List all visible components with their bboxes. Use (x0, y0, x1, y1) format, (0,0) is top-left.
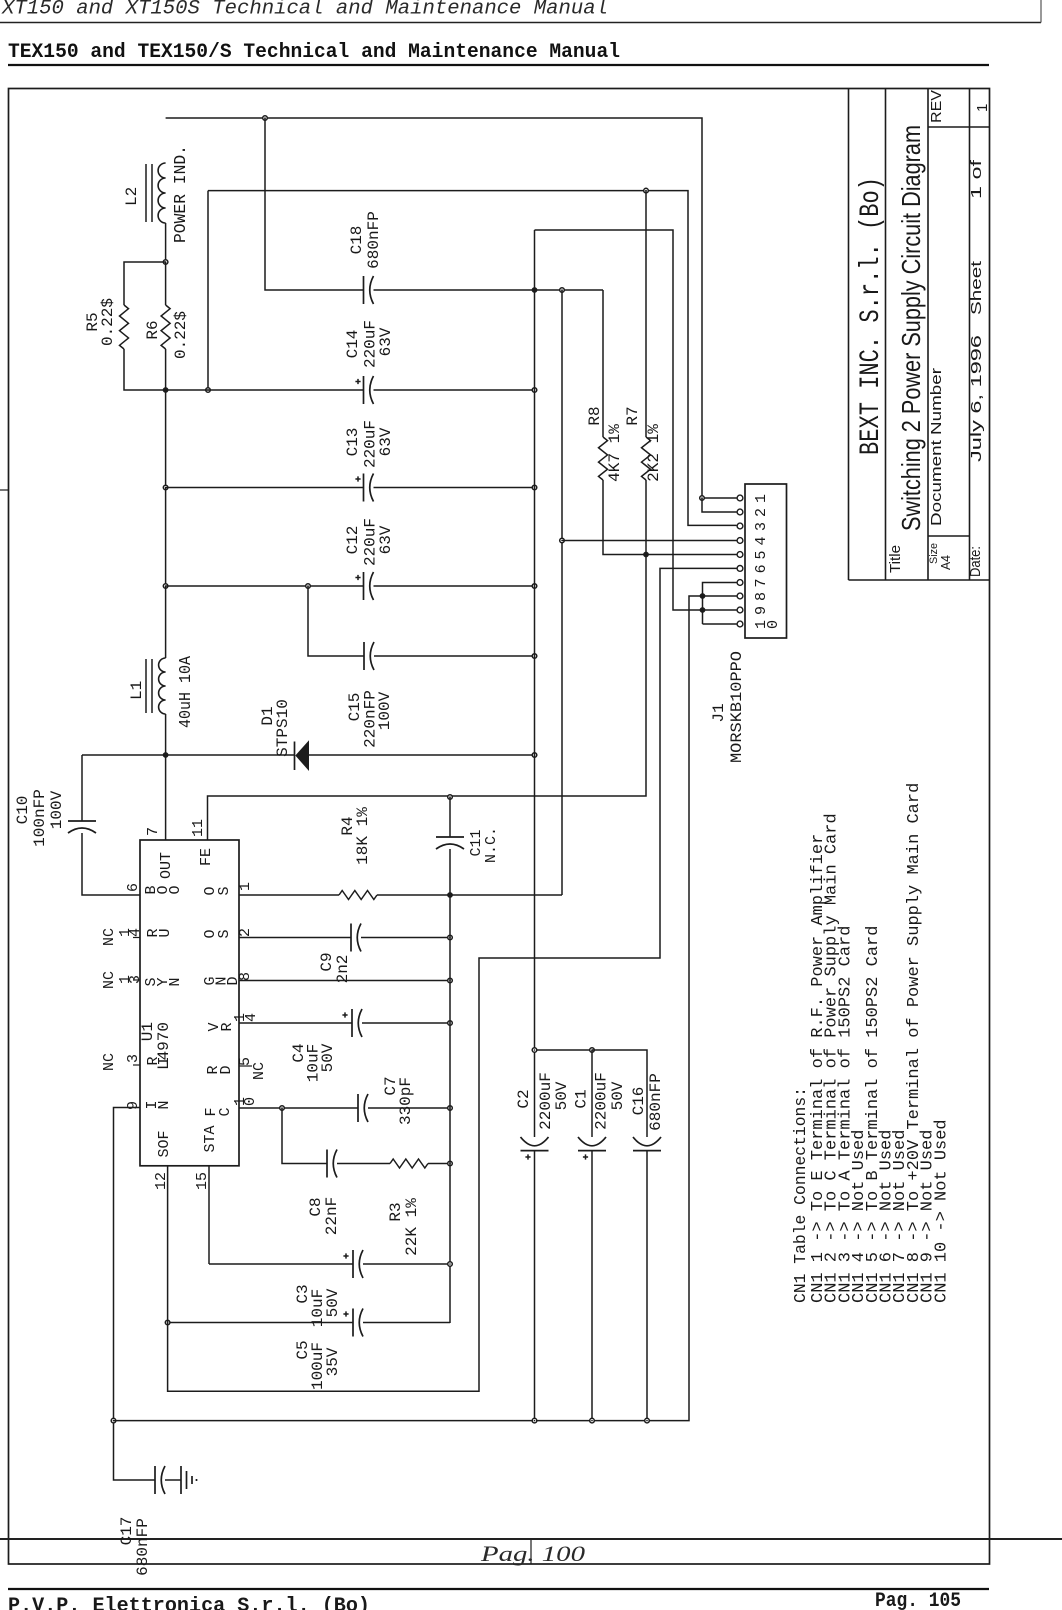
svg-text:8: 8 (753, 592, 770, 601)
wire C18 to R8 corner (374, 289, 604, 291)
right rail vertical lower (449, 849, 451, 1323)
junction J1 pin3 node (700, 593, 706, 599)
U1 pin 11 wire (208, 555, 647, 841)
svg-text:7: 7 (145, 827, 162, 836)
svg-text:L1: L1 (128, 681, 146, 700)
svg-text:A4: A4 (938, 555, 953, 570)
paper fold line bottom (0, 1538, 1062, 1540)
wire C16 feed (592, 1050, 647, 1137)
inductor L2 core bars (145, 164, 147, 222)
svg-text:OUT: OUT (158, 852, 175, 879)
svg-text:4: 4 (753, 536, 770, 545)
capacitor C16 (633, 1137, 661, 1146)
svg-text:C2: C2 (515, 1089, 533, 1108)
wire pin8 rail horizontal (208, 191, 737, 526)
capacitor C2 (521, 1137, 549, 1146)
wire C2/C1 top row (535, 1049, 593, 1051)
svg-text:680nFP: 680nFP (365, 211, 383, 269)
capacitor C4 (351, 1009, 353, 1037)
junction R5/R6 bottom (163, 387, 169, 393)
resistor R6 (165, 262, 167, 305)
svg-text:P.V.P. Elettronica S.r.l. (Bo): P.V.P. Elettronica S.r.l. (Bo) (8, 1595, 370, 1610)
connector J1 body (745, 484, 787, 638)
resistor R8 (599, 437, 608, 480)
svg-text:Sheet: Sheet (968, 260, 985, 315)
wire R7 vertical (645, 191, 647, 437)
junction J1 pin2 node (700, 607, 706, 613)
svg-text:SOF: SOF (156, 1130, 173, 1157)
main rail vertical (534, 230, 536, 1137)
wire C10 stub down (81, 755, 83, 821)
junction C12 row left (163, 584, 168, 589)
capacitor C12 (363, 572, 365, 600)
U1 pin 7 wire (165, 755, 167, 840)
svg-text:Document Number: Document Number (928, 368, 945, 526)
svg-text:1 of: 1 of (968, 159, 985, 199)
svg-text:NC: NC (101, 971, 118, 989)
svg-text:REV: REV (928, 90, 945, 123)
svg-text:Pag. 100: Pag. 100 (480, 1541, 585, 1566)
wire pin1 row with R4 (239, 894, 339, 896)
inductor L1 (159, 658, 166, 714)
header rule 2 (8, 64, 989, 66)
wire C13 row (166, 487, 364, 489)
svg-text:3: 3 (753, 522, 770, 531)
diode D1 (294, 742, 296, 771)
net wire top of main rail to J1 pins 1-2-3 branch (535, 230, 703, 610)
svg-text:2K2 1%: 2K2 1% (645, 424, 663, 482)
svg-text:C13: C13 (344, 428, 362, 457)
svg-text:C1: C1 (573, 1089, 591, 1108)
junction C3 wire / right rail (448, 1262, 453, 1267)
svg-text:C18: C18 (348, 226, 366, 255)
J1 pin circles (737, 495, 743, 501)
junction C16 / ground rail (645, 1418, 650, 1423)
svg-text:N.C.: N.C. (483, 827, 500, 863)
wire C8/R3 branch (282, 1108, 327, 1164)
junction C15 drop on C12 row (306, 584, 311, 589)
wire C2 bottom (534, 1151, 536, 1421)
svg-text:50V: 50V (319, 1043, 337, 1072)
svg-text:4: 4 (243, 1013, 260, 1022)
svg-text:XT150 and XT150S Technical and: XT150 and XT150S Technical and Maintenan… (1, 0, 608, 21)
svg-text:22nF: 22nF (323, 1197, 341, 1235)
junction pin8-rail corner on C14 wire (206, 388, 211, 393)
svg-text:O: O (167, 885, 184, 894)
svg-text:I: I (156, 1056, 173, 1065)
capacitor C7 (357, 1094, 359, 1122)
junction R7/R8/pin6/pin11 node (643, 552, 649, 558)
footer rule (8, 1588, 989, 1590)
junction C18 wire / main rail (532, 287, 538, 293)
svg-text:2n2: 2n2 (334, 955, 352, 984)
svg-text:100nFP: 100nFP (31, 789, 49, 847)
svg-text:35V: 35V (324, 1347, 342, 1376)
svg-text:2: 2 (753, 508, 770, 517)
title block frame (848, 89, 850, 581)
junction C13 row left (163, 485, 168, 490)
svg-text:Title: Title (887, 545, 904, 573)
capacitor C9 (350, 924, 352, 952)
svg-text:MORSKB10PPO: MORSKB10PPO (728, 651, 746, 763)
junction C15 wire / main rail (532, 654, 537, 659)
U1 pin 13 stub (133, 979, 140, 981)
svg-text:2200uF: 2200uF (593, 1072, 611, 1130)
svg-text:FE: FE (198, 848, 215, 866)
junction C13 wire / main rail (532, 485, 537, 490)
svg-text:Pag. 105: Pag. 105 (875, 1590, 961, 1610)
wire R8 top corner (602, 290, 604, 437)
junction main rail / C2C1 row (532, 1048, 537, 1053)
capacitor C3 (352, 1250, 354, 1278)
wire D1 to main rail (309, 754, 535, 756)
right rail vertical upper (449, 797, 451, 837)
svg-text:TEX150 and TEX150/S Technical: TEX150 and TEX150/S Technical and Mainte… (8, 41, 620, 64)
junction node top rail (263, 116, 268, 121)
wire pin9 to ground (114, 1108, 156, 1481)
junction R7 top (644, 188, 649, 193)
wire L2 to R5/R6 node (165, 223, 167, 262)
junction pin10 row / C8 branch (280, 1106, 285, 1111)
junction OUT node at pin7 (163, 752, 169, 758)
svg-text:U: U (157, 928, 174, 937)
svg-text:100V: 100V (376, 691, 394, 730)
svg-text:2: 2 (237, 928, 254, 937)
svg-text:50V: 50V (324, 1288, 342, 1317)
header rule 1 end tick (1040, 0, 1042, 23)
wire pin14 row with C4 (239, 1022, 352, 1024)
wire J1 pin3 (703, 595, 737, 597)
wire left rail continues (165, 488, 167, 587)
wire OUT row to D1 (82, 754, 295, 756)
junction R3 wire / right rail (448, 1161, 453, 1166)
svg-text:L2: L2 (123, 187, 141, 206)
wire J1 pin7 (562, 540, 737, 542)
junction OUT wire / main rail (532, 753, 537, 758)
svg-text:11: 11 (190, 819, 207, 837)
svg-text:S: S (216, 886, 233, 895)
svg-text:Date:: Date: (967, 546, 984, 577)
junction C4 wire / right rail (448, 1021, 453, 1026)
junction pin11 wire / right rail (448, 795, 453, 800)
svg-text:63V: 63V (377, 525, 395, 554)
svg-text:CN1 10 -> Not Used: CN1 10 -> Not Used (932, 1119, 951, 1303)
svg-text:9: 9 (125, 1101, 142, 1110)
svg-text:4K7 1%: 4K7 1% (606, 424, 624, 482)
U1 pin 5 stub (239, 1065, 252, 1067)
svg-text:C16: C16 (630, 1087, 648, 1116)
junction C5 wire / pin12 wire (165, 1320, 170, 1325)
svg-text:50V: 50V (609, 1081, 627, 1110)
wire into L1 (165, 586, 167, 658)
wire pin8 row (239, 980, 450, 982)
inductor L2 (158, 163, 166, 223)
wire J1 pin10 stub (702, 497, 737, 499)
wire C1 bottom (591, 1151, 593, 1421)
junction pin9 wire / ground rail (111, 1418, 116, 1423)
svg-text:6: 6 (753, 564, 770, 573)
junction C14 wire / main rail (532, 388, 537, 393)
svg-text:Switching 2 Power Supply Circu: Switching 2 Power Supply Circuit Diagram (896, 125, 926, 531)
wire pin2 row with C9 (239, 937, 351, 939)
resistor R4 (339, 891, 377, 900)
border tick left (0, 489, 9, 491)
svg-text:1: 1 (753, 494, 770, 503)
wire C18 branch vertical (265, 118, 364, 290)
capacitor C13 (363, 474, 365, 502)
junction C18 wire / feedback vertical (560, 288, 565, 293)
resistor R7 (642, 437, 651, 480)
svg-text:C14: C14 (344, 330, 362, 359)
wire R8 bottom to pin6 node (603, 480, 737, 555)
wire J1 pin4 (703, 583, 737, 625)
capacitor C1 (578, 1137, 606, 1146)
svg-text:63V: 63V (377, 427, 395, 456)
wire pin12 to ground loop to J1 pin5 (168, 568, 737, 1391)
svg-text:R8: R8 (586, 406, 604, 425)
U1 pin 14 stub (133, 937, 140, 939)
wire C15 stub (308, 586, 364, 656)
svg-text:R: R (219, 1022, 236, 1031)
capacitor C11 (436, 836, 464, 838)
wire C17 to ground symbol (165, 1479, 181, 1481)
svg-text:1: 1 (237, 882, 254, 891)
junction J1 pin10 (700, 496, 705, 501)
svg-text:D: D (218, 1065, 235, 1074)
junction pin8 row / right rail (448, 978, 453, 983)
wire C10 to pin6 (82, 833, 140, 895)
junction C9 wire / right rail (448, 935, 453, 940)
svg-text:4: 4 (127, 928, 144, 937)
svg-text:63V: 63V (377, 327, 395, 356)
svg-text:BEXT INC. S.r.l. (Bo): BEXT INC. S.r.l. (Bo) (856, 177, 887, 455)
junction C1 top (590, 1048, 595, 1053)
feedback vertical wire (561, 290, 563, 895)
svg-text:C: C (217, 1107, 234, 1116)
inductor L1 core bars (145, 659, 147, 713)
wire pin8 rail left corner down (207, 191, 209, 390)
wire C5 row (168, 1322, 353, 1324)
IC U1 body (140, 840, 239, 1166)
capacitor C5 (352, 1309, 354, 1337)
svg-text:50V: 50V (553, 1081, 571, 1110)
svg-text:22K 1%: 22K 1% (403, 1198, 421, 1256)
capacitor C15 (363, 642, 365, 670)
wire C3 row (209, 1263, 353, 1265)
wire J1 pin1 (703, 623, 737, 625)
svg-text:6: 6 (125, 883, 142, 892)
wire C12 row (166, 585, 364, 587)
svg-text:680nFP: 680nFP (134, 1518, 152, 1576)
capacitor C8 (326, 1150, 328, 1178)
wire pin10 row with C7 (239, 1107, 358, 1109)
svg-text:S: S (216, 929, 233, 938)
svg-text:July 6, 1996: July 6, 1996 (968, 335, 985, 462)
svg-text:100V: 100V (48, 790, 66, 829)
capacitor C17 (154, 1466, 156, 1494)
svg-text:9: 9 (753, 606, 770, 615)
svg-text:7: 7 (753, 578, 770, 587)
svg-text:POWER IND.: POWER IND. (172, 145, 191, 243)
svg-text:330pF: 330pF (397, 1077, 415, 1125)
svg-text:0.22$: 0.22$ (99, 298, 117, 346)
wire C1 drop (591, 1050, 593, 1137)
svg-text:18K 1%: 18K 1% (354, 807, 372, 865)
resistor R5 (120, 305, 129, 349)
svg-text:R7: R7 (624, 406, 642, 425)
junction R4 wire / right rail (447, 892, 453, 898)
wire L1 to OUT node (165, 714, 167, 755)
wire J1 pin2 (703, 609, 737, 611)
wire pin15 to C3 row (208, 1166, 210, 1264)
svg-text:C10: C10 (14, 796, 32, 825)
svg-text:NC: NC (101, 1053, 118, 1071)
svg-text:J1: J1 (710, 703, 728, 722)
junction R5/R6 top (163, 260, 168, 265)
svg-text:NC: NC (251, 1062, 268, 1080)
wire R4 to feedback vertical (377, 894, 562, 896)
junction C2 / ground rail (532, 1418, 537, 1423)
svg-text:680nFP: 680nFP (647, 1073, 665, 1131)
svg-text:STA: STA (202, 1125, 219, 1152)
header rule 1 (0, 22, 1041, 24)
svg-text:STPS10: STPS10 (274, 699, 292, 757)
junction C1 / ground rail (590, 1418, 595, 1423)
U1 pin 3 stub (133, 1064, 140, 1066)
capacitor C10 (68, 820, 96, 822)
svg-text:0: 0 (242, 1097, 259, 1106)
junction feedback / J1 pin7 wire (560, 538, 565, 543)
svg-text:3: 3 (125, 1054, 142, 1063)
wire R5 bottom (124, 349, 166, 390)
svg-text:C12: C12 (344, 526, 362, 555)
ground symbol (180, 1466, 182, 1494)
resistor R3 (390, 1159, 428, 1168)
border tick bottom (530, 1539, 532, 1564)
wire C16 bottom (646, 1151, 648, 1421)
svg-text:1: 1 (974, 104, 991, 112)
svg-text:0.22$: 0.22$ (172, 311, 190, 359)
svg-text:NC: NC (101, 928, 118, 946)
svg-text:N: N (156, 1100, 173, 1109)
capacitor C18 (363, 276, 365, 304)
ground rail bottom (114, 596, 703, 1421)
junction C12 wire / main rail (532, 584, 537, 589)
wire J1 pin9 drop (702, 498, 737, 512)
svg-text:5: 5 (753, 550, 770, 559)
capacitor C14 (363, 376, 365, 404)
junction C7 wire / right rail (448, 1106, 453, 1111)
wire R5 branch (124, 262, 166, 305)
wire left rail L2-L1 (165, 390, 167, 488)
svg-text:R6: R6 (144, 320, 162, 339)
wire top rail from L2 to J1 pin 10 corner (166, 118, 702, 498)
svg-text:N: N (167, 977, 184, 986)
svg-text:0: 0 (765, 620, 782, 629)
wire C14 row (166, 389, 364, 391)
svg-text:40uH 10A: 40uH 10A (177, 655, 196, 728)
